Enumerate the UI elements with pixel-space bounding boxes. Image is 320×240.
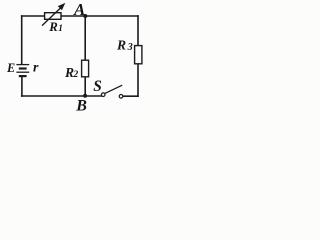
svg-text:r: r [33,61,39,76]
svg-text:2: 2 [73,70,79,80]
svg-text:R: R [48,20,58,34]
svg-text:A: A [73,0,85,19]
svg-text:B: B [75,97,87,114]
svg-text:R: R [116,37,126,52]
svg-text:S: S [93,78,102,95]
svg-text:3: 3 [127,42,133,53]
svg-text:1: 1 [58,23,63,33]
svg-text:E: E [6,61,15,75]
